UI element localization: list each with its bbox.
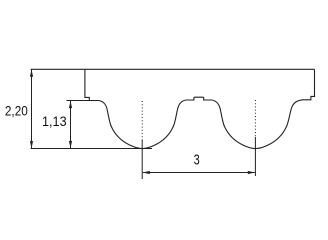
dimension 2,20 arrow down: [30, 141, 33, 148]
dimension 2,20 line: [31, 69, 33, 148]
dimension 3 arrow left: [143, 171, 150, 174]
dimension 1,13 arrow down: [69, 141, 72, 148]
tooth 1 centerline: [141, 101, 143, 179]
tooth 2 centerline: [254, 100, 256, 176]
dimension 2,20 arrow up: [30, 70, 33, 77]
svg-text:2,20: 2,20: [5, 104, 28, 119]
belt top edge line with extension: [31, 68, 315, 70]
belt profile outline: [85, 69, 315, 148]
dimension 1,13 arrow up: [69, 101, 72, 108]
svg-text:3: 3: [194, 152, 200, 168]
dimension 3 line: [143, 172, 255, 174]
dimension 3 arrow right: [248, 171, 255, 174]
dimension 1,13 extension line: [66, 100, 89, 102]
svg-text:1,13: 1,13: [42, 114, 67, 129]
tooth tip line (bottom reference line): [31, 148, 152, 150]
dimension 1,13 line: [70, 101, 72, 148]
